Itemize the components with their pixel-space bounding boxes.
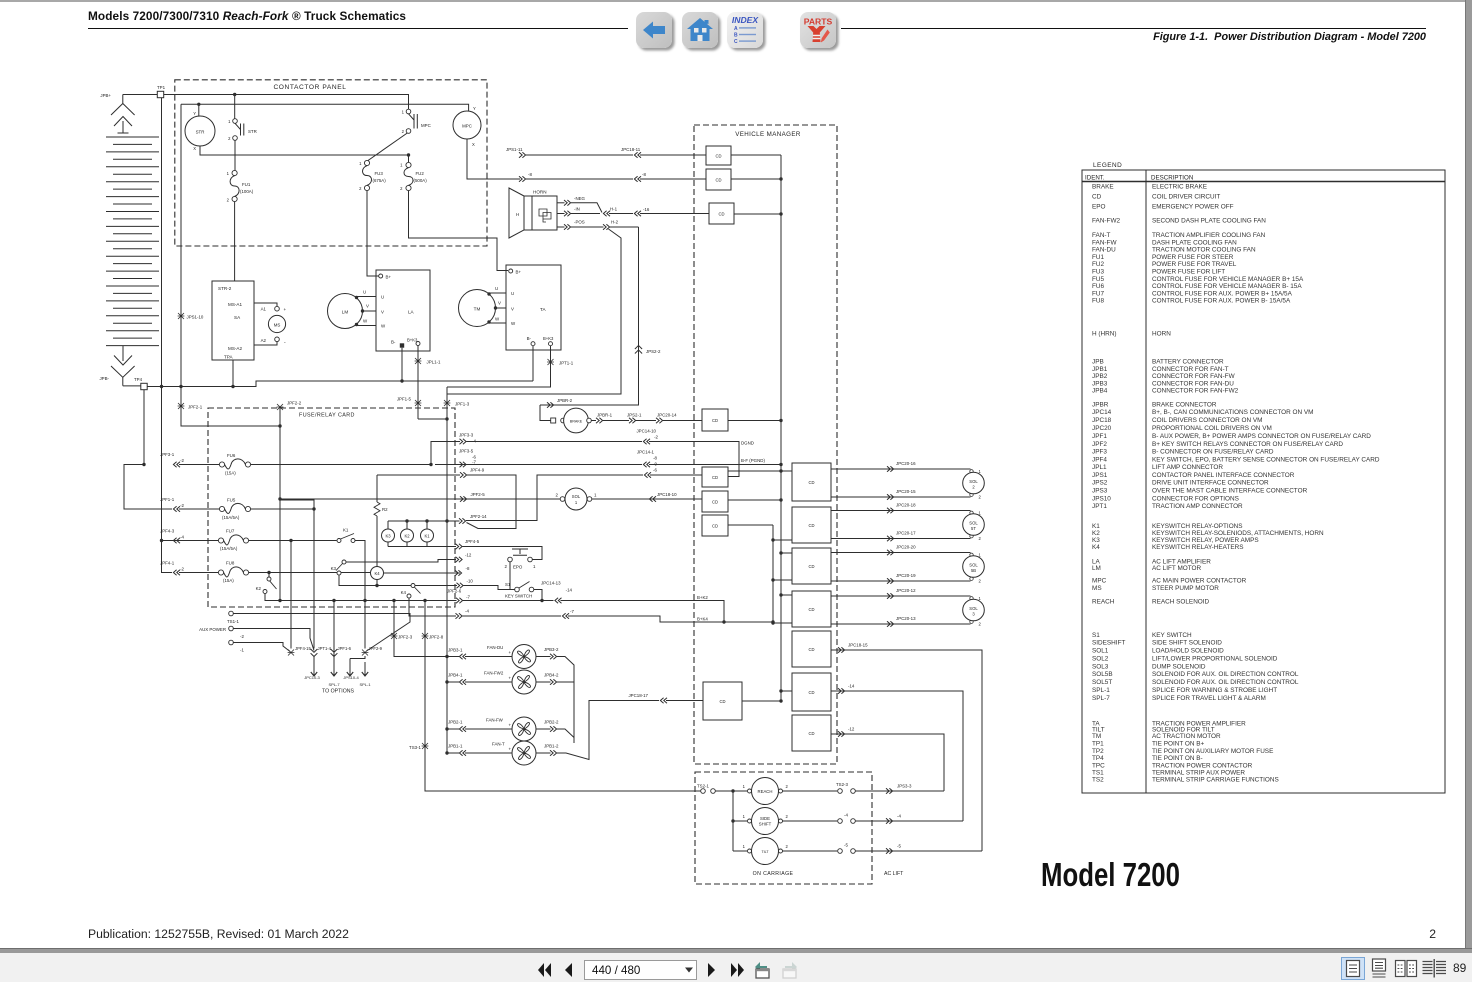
svg-text:-7: -7 bbox=[466, 595, 470, 600]
svg-text:TRACTION MOTOR COOLING FAN: TRACTION MOTOR COOLING FAN bbox=[1152, 247, 1256, 254]
svg-text:U: U bbox=[363, 290, 366, 295]
svg-text:2: 2 bbox=[402, 129, 405, 134]
button home bbox=[682, 12, 718, 48]
svg-text:FU6: FU6 bbox=[227, 453, 236, 458]
svg-text:TS3-1: TS3-1 bbox=[409, 745, 422, 750]
switch EPO emergency power off bbox=[528, 557, 533, 562]
wire JPC14-13 to VM B+K2 bbox=[561, 601, 725, 623]
nav first page bbox=[534, 960, 556, 980]
svg-text:JPF2-2: JPF2-2 bbox=[287, 401, 302, 406]
wire JPB- to TP4 bbox=[123, 385, 141, 387]
svg-text:FAN-FW: FAN-FW bbox=[1092, 239, 1117, 246]
connector JPC20-20 bbox=[887, 550, 894, 556]
svg-text:JPF3-1: JPF3-1 bbox=[160, 452, 175, 457]
svg-text:2: 2 bbox=[556, 493, 559, 498]
wire LA B- to B- bus bbox=[401, 348, 403, 381]
relay coil K3 bbox=[382, 529, 395, 542]
TA pin B- bbox=[531, 342, 535, 346]
svg-text:SOL: SOL bbox=[969, 606, 978, 611]
wire TA B+K3 via JPT1-1 bbox=[447, 346, 551, 387]
wire STR contact to FU1 bbox=[234, 140, 236, 170]
svg-text:1: 1 bbox=[228, 119, 231, 124]
svg-text:+: + bbox=[509, 650, 512, 655]
wire JPC20-20 to SOL 5B pin 1 bbox=[831, 552, 971, 554]
coil driver CD big 2 bbox=[792, 507, 831, 543]
svg-text:FU8: FU8 bbox=[1092, 298, 1105, 305]
svg-text:K2: K2 bbox=[1092, 530, 1100, 537]
svg-text:DASH PLATE COOLING FAN: DASH PLATE COOLING FAN bbox=[1152, 239, 1237, 246]
junction key row x280 bbox=[278, 599, 281, 602]
page number combo bbox=[584, 960, 697, 980]
TM pin W bbox=[487, 320, 490, 323]
wire JPF3-3 branch up bbox=[431, 442, 460, 465]
svg-text:(500A): (500A) bbox=[414, 178, 428, 183]
svg-text:W: W bbox=[363, 319, 368, 324]
svg-text:LM: LM bbox=[1092, 565, 1101, 572]
svg-text:B+: B+ bbox=[516, 269, 522, 274]
svg-text:K4: K4 bbox=[374, 571, 380, 576]
svg-text:1: 1 bbox=[979, 511, 982, 516]
junction bus PGND bbox=[779, 463, 782, 466]
svg-text:FUSE/RELAY CARD: FUSE/RELAY CARD bbox=[299, 413, 355, 419]
wire AUX -1 to JPF4-15 bbox=[234, 643, 291, 652]
wire S1 to key row bbox=[534, 590, 542, 601]
svg-text:2: 2 bbox=[1429, 927, 1436, 941]
svg-text:1: 1 bbox=[402, 110, 405, 115]
svg-text:SIDE SHIFT SOLENOID: SIDE SHIFT SOLENOID bbox=[1152, 639, 1222, 646]
arrow to JPC10-3 bbox=[313, 656, 315, 676]
svg-text:CD: CD bbox=[712, 418, 718, 423]
LA pin B+ bbox=[379, 274, 383, 278]
svg-text:W: W bbox=[511, 321, 516, 326]
wire -8 to CD bbox=[640, 178, 706, 180]
wire -10 to S1 bbox=[464, 586, 515, 590]
junction JPF1-3 node bbox=[445, 417, 448, 420]
svg-text:B+K4: B+K4 bbox=[697, 617, 708, 622]
button parts bbox=[800, 12, 836, 48]
title underline right bbox=[841, 28, 1426, 30]
connector -8 card out bbox=[455, 570, 462, 576]
wire FU1 to STR-2 box bbox=[234, 202, 236, 281]
svg-text:B-: B- bbox=[391, 340, 396, 345]
svg-text:JPF4-1: JPF4-1 bbox=[160, 561, 175, 566]
wire STR contact stub bbox=[234, 95, 236, 119]
svg-text:CONTROL FUSE FOR AUX. POWER B+: CONTROL FUSE FOR AUX. POWER B+ 15A/5A bbox=[1152, 290, 1293, 297]
junction VM bus2 B+K4 bbox=[771, 620, 774, 623]
wire JPC20-13 to SOL 3 pin 2 bbox=[831, 623, 971, 625]
svg-text:JPB2: JPB2 bbox=[1092, 373, 1108, 380]
svg-text:K2: K2 bbox=[256, 586, 262, 591]
svg-text:-4: -4 bbox=[844, 813, 848, 818]
svg-text:2: 2 bbox=[505, 564, 508, 569]
wire JPC20-18 to SOL 5T pin 1 bbox=[831, 510, 971, 512]
svg-text:FU5: FU5 bbox=[227, 498, 236, 503]
svg-text:K1: K1 bbox=[424, 534, 430, 539]
junction bus CD D bbox=[779, 593, 782, 596]
svg-text:AC LIFT: AC LIFT bbox=[884, 871, 904, 877]
wire MS A2 to STR-2 bbox=[254, 342, 277, 345]
svg-text:TPA: TPA bbox=[224, 355, 234, 360]
legend rows bbox=[1092, 184, 1380, 784]
svg-text:JPC20-17: JPC20-17 bbox=[896, 531, 916, 536]
combo dropdown arrow bbox=[684, 966, 694, 974]
wire -7 to B+K4 bbox=[568, 616, 773, 622]
connector JPF1-5 bbox=[415, 400, 422, 406]
next view icon disabled bbox=[778, 957, 800, 981]
svg-text:1: 1 bbox=[400, 163, 403, 168]
wire TS1-1 to JPF2-9 bbox=[234, 614, 411, 652]
horn -NEG lead bbox=[557, 202, 565, 204]
title underline left bbox=[88, 28, 628, 30]
svg-text:EMERGENCY POWER OFF: EMERGENCY POWER OFF bbox=[1152, 204, 1234, 211]
wire JPF1-6 column bbox=[333, 601, 335, 657]
svg-text:W: W bbox=[495, 317, 500, 322]
svg-text:MS: MS bbox=[274, 322, 281, 327]
svg-text:JPC20-14: JPC20-14 bbox=[657, 413, 677, 418]
junction bus CD2 bbox=[779, 177, 782, 180]
battery JPB bottom connector bbox=[114, 346, 132, 366]
svg-text:-2: -2 bbox=[240, 634, 244, 639]
svg-text:-12: -12 bbox=[465, 553, 472, 558]
svg-text:K3: K3 bbox=[331, 566, 337, 571]
svg-text:FU3: FU3 bbox=[1092, 269, 1105, 276]
svg-text:-14: -14 bbox=[566, 588, 573, 593]
coil driver CD PGND bbox=[702, 467, 728, 487]
wire JPC20-17 to SOL 5T pin 2 bbox=[831, 538, 971, 540]
svg-text:JPL1-1: JPL1-1 bbox=[427, 360, 441, 365]
svg-text:1: 1 bbox=[743, 784, 746, 789]
svg-text:2: 2 bbox=[979, 495, 982, 500]
svg-text:-NEG: -NEG bbox=[574, 196, 586, 201]
horn -POS lead bbox=[557, 226, 565, 228]
motor MS steer pump bbox=[268, 315, 285, 332]
svg-text:-6: -6 bbox=[653, 468, 657, 473]
fuse FU6 (15A) bbox=[219, 462, 224, 467]
solenoid SOL 3 bbox=[970, 597, 973, 600]
svg-text:K2: K2 bbox=[404, 534, 410, 539]
svg-text:A1: A1 bbox=[261, 307, 267, 312]
svg-text:CD: CD bbox=[808, 690, 814, 695]
junction TP1 column JPF4-3 bbox=[160, 539, 163, 542]
svg-text:2: 2 bbox=[228, 136, 231, 141]
svg-text:JPC20: JPC20 bbox=[1092, 425, 1112, 432]
box STR-2 steer contactor bbox=[212, 281, 254, 360]
solenoid SIDE SHIFT bbox=[748, 819, 752, 823]
connector JPF1-3 bbox=[444, 400, 451, 406]
wire H-2 to JPS2-2 net bbox=[610, 226, 639, 228]
connector JPF2-3 bbox=[391, 633, 398, 639]
svg-text:2: 2 bbox=[359, 186, 362, 191]
connector -6 in bbox=[644, 472, 651, 478]
svg-text:HORN: HORN bbox=[533, 190, 547, 195]
wire TM U bbox=[489, 292, 506, 294]
connector JPC20-12 bbox=[887, 593, 894, 599]
TA pin B+K3 bbox=[549, 342, 553, 346]
svg-text:BRAKE: BRAKE bbox=[570, 419, 583, 423]
arrow to JPS10-4 bbox=[349, 659, 351, 677]
svg-text:5T: 5T bbox=[971, 526, 976, 531]
svg-text:JPF3-5: JPF3-5 bbox=[459, 449, 474, 454]
svg-text:MS: MS bbox=[1092, 585, 1102, 592]
svg-text:FU7: FU7 bbox=[226, 529, 235, 534]
svg-text:JPB3: JPB3 bbox=[1092, 380, 1108, 387]
junction carriage feed bbox=[731, 789, 734, 792]
svg-text:AC TRACTION MOTOR: AC TRACTION MOTOR bbox=[1152, 733, 1221, 740]
wire TS2-3 to JPS3-3 bbox=[856, 790, 945, 792]
svg-text:H (HRN): H (HRN) bbox=[1092, 331, 1117, 338]
svg-text:K4: K4 bbox=[401, 590, 407, 595]
nav last page bbox=[726, 960, 748, 980]
junction K1 col y601 bbox=[363, 599, 366, 602]
layout continuous bbox=[1367, 957, 1391, 980]
wire -8 row bbox=[526, 178, 633, 180]
contact MPC bbox=[406, 109, 411, 114]
wire JPC14-10 to DGND corner bbox=[649, 442, 739, 477]
svg-text:CD: CD bbox=[1092, 194, 1102, 201]
contact K3 bbox=[342, 560, 346, 564]
connector H-2 bbox=[603, 224, 610, 230]
connector JPS2-1 bbox=[629, 418, 636, 424]
svg-text:CD: CD bbox=[808, 731, 814, 736]
connector -12 card out bbox=[456, 557, 463, 563]
junction K1 coil top bbox=[425, 519, 428, 522]
svg-text:FAN-DU: FAN-DU bbox=[1092, 247, 1116, 254]
svg-text:K3: K3 bbox=[1092, 537, 1100, 544]
junction x280/181 bus bbox=[278, 424, 281, 427]
coil driver CD big 7 bbox=[792, 715, 831, 751]
wire CD6 out bbox=[728, 499, 781, 501]
svg-text:B-: B- bbox=[527, 336, 532, 341]
arrow to SPL-1 bbox=[364, 662, 366, 676]
wire JPBR-1 to JPS2-1 bbox=[603, 420, 629, 422]
svg-text:IDENT.: IDENT. bbox=[1085, 175, 1105, 182]
wire JPBR-2 to BRAKE bbox=[540, 405, 551, 421]
svg-text:CONTROL FUSE FOR AUX. POWER B-: CONTROL FUSE FOR AUX. POWER B- 15A/5A bbox=[1152, 298, 1291, 305]
svg-text:DRIVE UNIT INTERFACE CONNECTOR: DRIVE UNIT INTERFACE CONNECTOR bbox=[1152, 480, 1269, 487]
wire x280 key bus bbox=[279, 407, 281, 601]
svg-text:TP2: TP2 bbox=[1092, 748, 1104, 755]
svg-text:2: 2 bbox=[227, 198, 230, 203]
svg-text:HORN: HORN bbox=[1152, 331, 1171, 338]
junction bus CD3 bbox=[779, 212, 782, 215]
svg-text:JPC18-10: JPC18-10 bbox=[657, 492, 677, 497]
svg-text:5B: 5B bbox=[971, 568, 976, 573]
svg-text:CONNECTOR FOR FAN-T: CONNECTOR FOR FAN-T bbox=[1152, 366, 1229, 373]
svg-text:JPS2-1: JPS2-1 bbox=[627, 413, 642, 418]
svg-text:KEY SWITCH, EPO, BATTERY SENSE: KEY SWITCH, EPO, BATTERY SENSE CONNECTOR… bbox=[1152, 457, 1380, 464]
wire carriage feed chain bbox=[733, 791, 747, 851]
wire JPC14-1 to VM bus bbox=[649, 464, 781, 466]
svg-text:V: V bbox=[498, 301, 501, 306]
svg-text:EPO: EPO bbox=[513, 565, 523, 570]
svg-text:SPL-7: SPL-7 bbox=[328, 682, 340, 687]
svg-text:2: 2 bbox=[786, 814, 789, 819]
solenoid SOL 5B bbox=[970, 553, 973, 556]
svg-text:TP4: TP4 bbox=[1092, 755, 1104, 762]
svg-text:PROPORTIONAL COIL DRIVERS ON V: PROPORTIONAL COIL DRIVERS ON VM bbox=[1152, 425, 1272, 432]
svg-text:JPF2-3: JPF2-3 bbox=[398, 635, 413, 640]
svg-text:KEY SWITCH: KEY SWITCH bbox=[1152, 632, 1192, 639]
on carriage dashed box bbox=[695, 772, 872, 884]
svg-text:STR: STR bbox=[196, 130, 205, 135]
relay coil K1 bbox=[421, 529, 434, 542]
svg-text:JPF4-5: JPF4-5 bbox=[465, 539, 480, 544]
connector JPT1-1 bbox=[547, 359, 554, 365]
connector -10 card out bbox=[457, 583, 464, 589]
svg-text:FAN-FW2: FAN-FW2 bbox=[1092, 218, 1120, 225]
button back bbox=[636, 12, 672, 48]
svg-text:CD: CD bbox=[808, 607, 814, 612]
wire -10 out bbox=[446, 585, 457, 587]
wire REACH to TS2-3 bbox=[783, 790, 838, 792]
svg-text:VEHICLE MANAGER: VEHICLE MANAGER bbox=[735, 131, 801, 138]
svg-text:JPC18-17: JPC18-17 bbox=[628, 693, 648, 698]
legend column divider bbox=[1145, 170, 1147, 793]
svg-text:Y: Y bbox=[473, 106, 476, 111]
svg-text:LIFT/LOWER PROPORTIONAL SOLENO: LIFT/LOWER PROPORTIONAL SOLENOID bbox=[1152, 655, 1278, 662]
wire FU8 out to K4 coil bbox=[249, 572, 371, 574]
svg-text:W: W bbox=[381, 324, 386, 329]
solenoid SOL1 load hold bbox=[560, 497, 565, 502]
junction x280 JPF2-5 bbox=[278, 497, 281, 500]
svg-text:JPS3-3: JPS3-3 bbox=[897, 784, 912, 789]
wire TILT to -5 pins bbox=[783, 850, 838, 852]
wire FU2 top stub to JPS1-11 bus bbox=[408, 155, 410, 162]
svg-text:TILT: TILT bbox=[761, 850, 769, 854]
wire FU3 to LA B+ bbox=[367, 191, 379, 276]
svg-text:BRAKE: BRAKE bbox=[1092, 184, 1114, 191]
svg-text:TERMINAL STRIP CARRIAGE FUNCTI: TERMINAL STRIP CARRIAGE FUNCTIONS bbox=[1152, 777, 1279, 784]
TA pin B+ bbox=[509, 269, 513, 273]
solenoid REACH bbox=[748, 789, 752, 793]
svg-text:ON CARRIAGE: ON CARRIAGE bbox=[753, 871, 794, 877]
svg-text:CD: CD bbox=[808, 523, 814, 528]
junction FU7 JPF4-15 branch bbox=[289, 539, 292, 542]
wire LM W bbox=[357, 325, 377, 327]
connector JPS3-3 bbox=[886, 788, 893, 794]
svg-text:JPC14-1: JPC14-1 bbox=[637, 450, 655, 455]
coil driver CD JPC18-17 bbox=[703, 682, 742, 720]
svg-text:DUMP SOLENOID: DUMP SOLENOID bbox=[1152, 663, 1206, 670]
svg-text:JPF2: JPF2 bbox=[1092, 441, 1107, 448]
stub bus to CD C top bbox=[781, 552, 792, 554]
wire TS2-1 to REACH bbox=[716, 790, 748, 792]
svg-text:Y: Y bbox=[193, 111, 196, 116]
junction S1 key row bbox=[540, 599, 543, 602]
svg-text:JPS10-4: JPS10-4 bbox=[343, 675, 359, 680]
svg-text:SHIFT: SHIFT bbox=[759, 822, 772, 827]
wire TA B- to B- bus bbox=[532, 346, 534, 381]
wire TM V bbox=[496, 307, 507, 309]
fuse relay card dashed box bbox=[208, 408, 455, 607]
svg-text:1: 1 bbox=[979, 553, 982, 558]
junction B+K2 corner on B+K4 wire bbox=[722, 620, 725, 623]
wire K4b to -4 out bbox=[409, 598, 456, 616]
wire JPB2-1 to fan bbox=[447, 728, 459, 730]
coil driver CD -8 bbox=[706, 169, 731, 190]
svg-text:1: 1 bbox=[743, 844, 746, 849]
svg-text:POWER FUSE FOR LIFT: POWER FUSE FOR LIFT bbox=[1152, 269, 1225, 276]
svg-text:1: 1 bbox=[979, 469, 982, 474]
wire CD7 out to bus2 bbox=[728, 524, 773, 526]
connector JPF2-1 bbox=[178, 403, 185, 409]
svg-text:AUX POWER: AUX POWER bbox=[199, 627, 226, 632]
junction K2 tap bbox=[267, 571, 270, 574]
svg-text:B+, B-, CAN COMMUNICATIONS CON: B+, B-, CAN COMMUNICATIONS CONNECTOR ON … bbox=[1152, 409, 1314, 416]
svg-text:KEY SWITCH: KEY SWITCH bbox=[505, 594, 532, 599]
svg-text:FU1: FU1 bbox=[1092, 254, 1105, 261]
junction second bus / STR coil bbox=[197, 103, 200, 106]
bottom toolbar bbox=[0, 953, 1472, 982]
svg-text:Model 7200: Model 7200 bbox=[1041, 856, 1180, 893]
junction K4 bottom bbox=[375, 584, 378, 587]
legend box bbox=[1082, 170, 1445, 793]
connector JPF4-9 bbox=[460, 472, 467, 478]
svg-text:CD: CD bbox=[808, 564, 814, 569]
wire branch to JPF1 row bbox=[124, 465, 172, 510]
svg-text:JPB2-2: JPB2-2 bbox=[544, 720, 559, 725]
svg-text:-8: -8 bbox=[653, 456, 657, 461]
svg-text:JPF1-3: JPF1-3 bbox=[455, 402, 470, 407]
wire JPS2-2 vertical bbox=[540, 227, 639, 405]
svg-text:JPF3-3: JPF3-3 bbox=[459, 433, 474, 438]
svg-text:CD: CD bbox=[808, 647, 814, 652]
connector JPBR-2 bbox=[547, 402, 554, 408]
LA pin B- bbox=[400, 343, 404, 347]
svg-text:2: 2 bbox=[786, 844, 789, 849]
svg-text:LA: LA bbox=[408, 310, 415, 315]
svg-text:JPBR: JPBR bbox=[1092, 402, 1109, 409]
wire EPO to S1 bbox=[510, 562, 515, 590]
svg-text:MPC: MPC bbox=[462, 124, 472, 129]
svg-text:CONTACTOR PANEL INTERFACE CONN: CONTACTOR PANEL INTERFACE CONNECTOR bbox=[1152, 472, 1295, 479]
svg-text:TERMINAL STRIP AUX POWER: TERMINAL STRIP AUX POWER bbox=[1152, 769, 1245, 776]
zoom percent bbox=[1453, 961, 1466, 975]
svg-text:JPB4: JPB4 bbox=[1092, 388, 1108, 395]
svg-text:JPS2: JPS2 bbox=[1092, 480, 1108, 487]
svg-text:CD: CD bbox=[712, 475, 718, 480]
svg-text:-8: -8 bbox=[528, 172, 532, 177]
wire CD1 out bbox=[731, 154, 781, 156]
wire JPB4-1 to fan bbox=[447, 681, 459, 683]
wire K3 to -10 row bbox=[339, 575, 446, 586]
svg-text:SECOND DASH PLATE COOLING FAN: SECOND DASH PLATE COOLING FAN bbox=[1152, 218, 1266, 225]
svg-text:1: 1 bbox=[594, 493, 597, 498]
contact K4b bbox=[411, 584, 415, 588]
wire fan to JPB1-2 bbox=[536, 752, 551, 754]
svg-text:JPB4-2: JPB4-2 bbox=[544, 673, 559, 678]
junction K2 coil top bbox=[405, 519, 408, 522]
svg-text:JPB+: JPB+ bbox=[100, 93, 111, 98]
svg-text:JPF2-8: JPF2-8 bbox=[429, 635, 444, 640]
wire JPF1-3 column down bbox=[446, 419, 448, 753]
svg-text:-4: -4 bbox=[465, 609, 469, 614]
junction K bus x447 bbox=[445, 519, 448, 522]
contact K1 bbox=[337, 539, 341, 543]
battery JPB cell plates bbox=[106, 137, 159, 346]
relay coil K4 bbox=[371, 567, 384, 580]
arrow to SPL-7 bbox=[333, 656, 335, 676]
svg-text:JPC20-20: JPC20-20 bbox=[896, 545, 916, 550]
svg-text:1: 1 bbox=[979, 596, 982, 601]
fuse FU2 (500A) bbox=[406, 162, 411, 167]
connector JPF2-8 bbox=[422, 633, 429, 639]
svg-text:2: 2 bbox=[979, 536, 982, 541]
svg-text:B+ KEY SWITCH RELAYS CONNECTOR: B+ KEY SWITCH RELAYS CONNECTOR ON FUSE/R… bbox=[1152, 441, 1343, 448]
svg-text:JPC20-15: JPC20-15 bbox=[896, 489, 916, 494]
relay coil K2 bbox=[401, 529, 414, 542]
svg-text:JPF4-15: JPF4-15 bbox=[295, 646, 311, 651]
